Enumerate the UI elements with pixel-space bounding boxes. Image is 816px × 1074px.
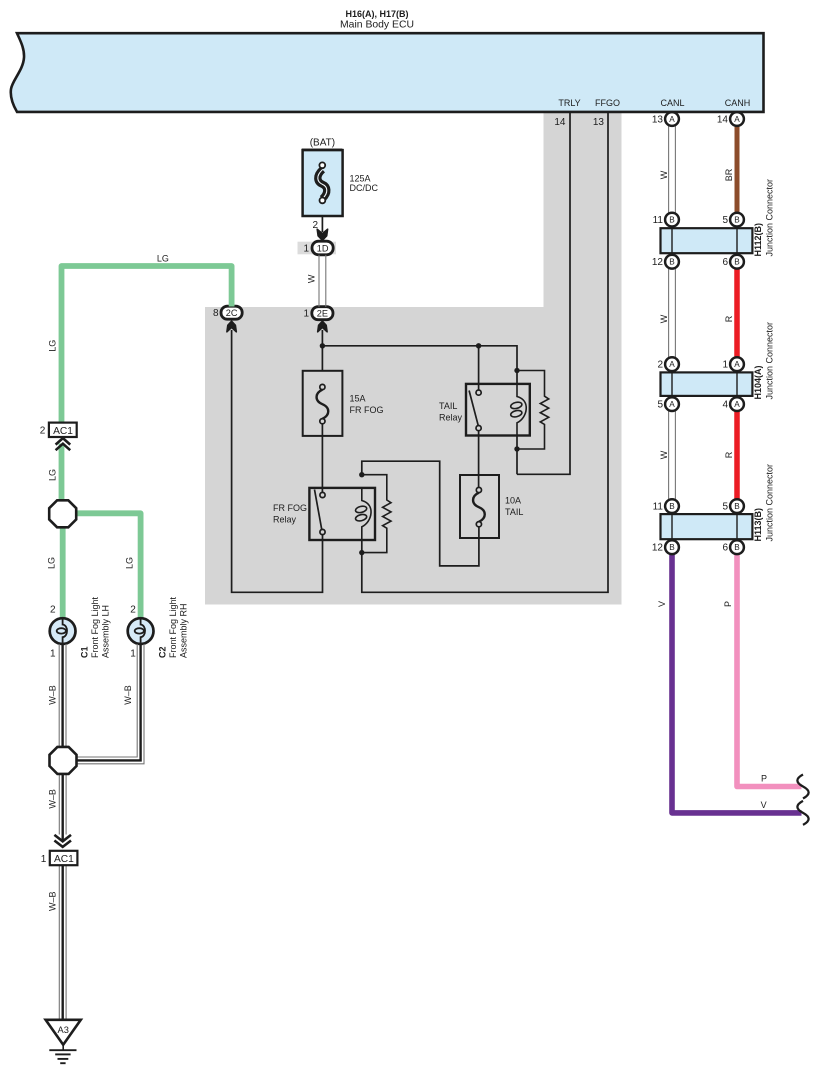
svg-text:LG: LG: [48, 469, 58, 481]
svg-text:12: 12: [652, 543, 664, 554]
svg-text:Assembly RH: Assembly RH: [178, 603, 188, 658]
svg-text:1: 1: [722, 360, 728, 371]
svg-text:B: B: [734, 502, 740, 511]
svg-text:R: R: [724, 315, 734, 322]
svg-text:Junction Connector: Junction Connector: [765, 179, 775, 257]
svg-text:H16(A), H17(B): H16(A), H17(B): [345, 9, 408, 19]
svg-text:AC1: AC1: [53, 426, 73, 437]
svg-text:LG: LG: [48, 340, 58, 352]
svg-text:P: P: [723, 601, 733, 607]
svg-text:B: B: [669, 216, 675, 225]
svg-text:TRLY: TRLY: [558, 98, 580, 108]
svg-text:W: W: [659, 314, 669, 323]
svg-text:2C: 2C: [226, 308, 238, 318]
svg-text:FR FOG: FR FOG: [273, 503, 307, 513]
svg-text:5: 5: [722, 502, 728, 513]
svg-text:1: 1: [130, 649, 136, 660]
svg-text:Main Body ECU: Main Body ECU: [340, 20, 414, 31]
svg-text:CANH: CANH: [725, 98, 751, 108]
svg-text:Front Fog Light: Front Fog Light: [168, 596, 178, 658]
svg-text:A: A: [734, 115, 740, 124]
svg-text:2E: 2E: [317, 309, 328, 319]
svg-text:5: 5: [722, 215, 728, 226]
svg-text:H113(B): H113(B): [753, 508, 763, 542]
svg-text:FFGO: FFGO: [595, 98, 620, 108]
svg-text:H112(B): H112(B): [753, 223, 763, 257]
svg-text:2: 2: [50, 604, 56, 615]
svg-text:V: V: [761, 800, 767, 810]
svg-text:W–B: W–B: [48, 891, 58, 911]
svg-text:A: A: [669, 115, 675, 124]
svg-text:14: 14: [717, 115, 729, 126]
svg-text:FR FOG: FR FOG: [350, 405, 384, 415]
svg-text:W: W: [306, 274, 316, 283]
svg-text:13: 13: [593, 117, 605, 128]
svg-text:1: 1: [303, 309, 309, 320]
svg-text:2: 2: [657, 360, 663, 371]
svg-text:6: 6: [722, 543, 728, 554]
svg-text:A: A: [669, 400, 675, 409]
svg-text:TAIL: TAIL: [505, 507, 523, 517]
svg-text:W–B: W–B: [123, 685, 133, 705]
svg-text:LG: LG: [47, 557, 57, 569]
svg-text:13: 13: [652, 115, 664, 126]
svg-text:1: 1: [303, 243, 309, 254]
svg-text:125A: 125A: [350, 173, 371, 183]
svg-text:B: B: [669, 258, 675, 267]
svg-text:A3: A3: [58, 1025, 69, 1035]
svg-text:1D: 1D: [317, 243, 329, 253]
svg-text:10A: 10A: [505, 496, 521, 506]
svg-text:5: 5: [657, 400, 663, 411]
svg-text:1: 1: [41, 854, 47, 865]
svg-text:11: 11: [653, 215, 664, 226]
svg-text:BR: BR: [724, 168, 734, 181]
svg-text:P: P: [761, 774, 767, 784]
svg-text:LG: LG: [125, 557, 135, 569]
svg-text:8: 8: [213, 308, 219, 319]
svg-text:B: B: [669, 543, 675, 552]
svg-text:B: B: [734, 216, 740, 225]
svg-text:4: 4: [722, 400, 728, 411]
svg-text:A: A: [734, 360, 740, 369]
svg-text:Relay: Relay: [439, 412, 463, 422]
svg-text:AC1: AC1: [54, 854, 74, 865]
svg-text:Assembly LH: Assembly LH: [100, 605, 110, 658]
svg-text:DC/DC: DC/DC: [350, 183, 379, 193]
svg-text:14: 14: [554, 117, 566, 128]
svg-text:R: R: [724, 451, 734, 458]
svg-text:C1: C1: [79, 646, 89, 658]
svg-text:CANL: CANL: [660, 98, 684, 108]
svg-text:W: W: [659, 170, 669, 179]
svg-text:LG: LG: [157, 254, 169, 264]
svg-text:12: 12: [652, 257, 664, 268]
svg-text:2: 2: [40, 426, 46, 437]
svg-text:Junction Connector: Junction Connector: [765, 322, 775, 400]
svg-text:2: 2: [130, 604, 136, 615]
svg-text:B: B: [734, 543, 740, 552]
svg-text:11: 11: [653, 502, 664, 513]
svg-text:15A: 15A: [350, 394, 366, 404]
svg-text:W–B: W–B: [48, 789, 58, 809]
svg-text:W–B: W–B: [48, 685, 58, 705]
svg-text:(BAT): (BAT): [310, 138, 335, 149]
svg-text:6: 6: [722, 257, 728, 268]
svg-text:Front Fog Light: Front Fog Light: [90, 596, 100, 658]
svg-text:1: 1: [50, 649, 56, 660]
svg-text:C2: C2: [157, 646, 167, 658]
svg-text:B: B: [734, 258, 740, 267]
svg-text:B: B: [669, 502, 675, 511]
svg-text:Junction Connector: Junction Connector: [765, 464, 775, 542]
svg-text:A: A: [669, 360, 675, 369]
svg-text:TAIL: TAIL: [439, 401, 457, 411]
svg-text:A: A: [734, 400, 740, 409]
svg-text:Relay: Relay: [273, 514, 297, 524]
svg-text:W: W: [659, 450, 669, 459]
svg-text:H104(A): H104(A): [753, 365, 763, 399]
svg-text:V: V: [657, 601, 667, 607]
